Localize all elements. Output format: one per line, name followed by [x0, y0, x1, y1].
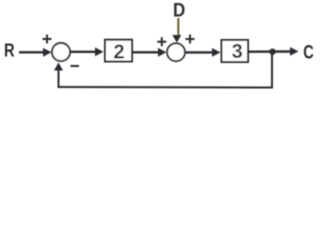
svg-text:3: 3: [232, 41, 243, 63]
svg-text:2: 2: [113, 41, 124, 63]
svg-text:C: C: [303, 42, 314, 63]
svg-text:R: R: [4, 41, 15, 61]
